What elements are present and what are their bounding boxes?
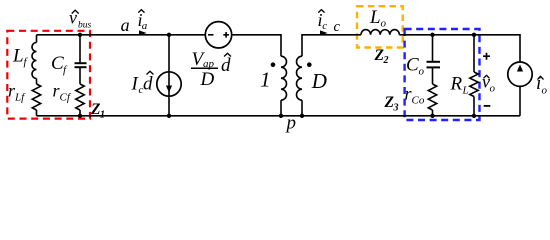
svg-text:a: a (121, 15, 130, 35)
node dot RL branch top (472, 33, 476, 37)
label Z1 (90, 101, 105, 120)
wire top rail from source to transformer primary (232, 35, 281, 56)
svg-text:c: c (334, 19, 341, 35)
svg-text:d: d (143, 74, 153, 95)
wire secondary top to rail (302, 35, 361, 56)
wire current source branch (168, 35, 170, 116)
node vbus label (69, 7, 92, 30)
label Vap/D d (voltage source value) (191, 49, 231, 90)
node dot Co branch top (430, 33, 434, 37)
svg-text:f: f (24, 56, 29, 68)
inductor Lf (vertical coil) (32, 43, 36, 79)
node dot Cf branch bottom (78, 114, 82, 118)
svg-text:c: c (322, 20, 327, 32)
capacitor Co (427, 62, 441, 68)
current ia arrow (139, 30, 147, 35)
label rCo (405, 84, 425, 107)
svg-text:o: o (381, 18, 387, 30)
wire top rail left (37, 34, 206, 36)
svg-text:L: L (12, 46, 24, 67)
svg-text:D: D (311, 69, 327, 93)
node dot Co branch bottom (430, 114, 434, 118)
svg-text:R: R (450, 74, 463, 95)
svg-text:Cf: Cf (60, 92, 72, 104)
resistor RL (470, 72, 478, 97)
wire RL bottom (473, 97, 475, 116)
label RL (450, 74, 469, 97)
wire secondary bottom (301, 100, 303, 116)
label rCf (53, 81, 72, 104)
impedance box Z3 (blue dashed) (405, 29, 480, 120)
label Lf (12, 46, 29, 69)
label Lo (369, 7, 387, 30)
svg-text:bus: bus (78, 21, 92, 31)
transformer secondary dot (307, 62, 312, 67)
node dot Ic branch bottom (167, 114, 171, 118)
svg-text:p: p (285, 113, 297, 134)
label Ic d (131, 71, 154, 96)
svg-text:Co: Co (412, 95, 425, 107)
svg-text:o: o (490, 83, 496, 95)
resistor rCf (76, 84, 84, 110)
label rLf (8, 81, 26, 104)
wire Lf branch top (36, 35, 38, 43)
node dot Cf branch top (78, 33, 82, 37)
output minus mark (484, 105, 491, 107)
svg-text:1: 1 (260, 67, 271, 91)
resistor rLf (32, 84, 40, 110)
wire top rail right (399, 35, 520, 62)
wire Cf to rCf (79, 68, 81, 84)
resistor rCo (428, 84, 436, 110)
current ia label (138, 10, 148, 33)
svg-text:L: L (462, 85, 469, 97)
svg-text:Lf: Lf (14, 92, 26, 104)
label io (536, 73, 548, 97)
svg-text:f: f (63, 64, 68, 76)
wire bottom rail (37, 115, 521, 117)
current source io (508, 62, 532, 86)
label Z2 (374, 47, 389, 66)
current ic label (318, 10, 328, 33)
wire Cf branch top (79, 35, 81, 63)
node dot RL branch bottom (472, 114, 476, 118)
wire RL branch top (473, 35, 475, 72)
current ic arrow (320, 30, 328, 35)
svg-text:L: L (369, 7, 381, 28)
node dot secondary bottom (300, 114, 304, 118)
wire Co to rCo (432, 68, 434, 84)
wire rCo bottom (432, 110, 434, 116)
voltage source Vap/D d (series, top rail) (205, 22, 231, 48)
node dot a-rail junction Ic branch top (167, 33, 171, 37)
svg-text:o: o (542, 85, 548, 97)
current source Ic d (157, 72, 181, 96)
wire io source bottom (519, 87, 521, 116)
capacitor Cf (75, 63, 87, 67)
wire Co branch top (432, 35, 434, 61)
svg-text:D: D (200, 69, 215, 90)
svg-text:C: C (406, 55, 419, 76)
transformer secondary winding (D) (297, 56, 303, 100)
svg-text:3: 3 (393, 103, 399, 114)
svg-text:o: o (419, 66, 425, 78)
wire primary bottom (280, 100, 282, 116)
output plus mark (483, 53, 490, 60)
wire Lf to rLf (36, 79, 38, 85)
inductor Lo (horizontal coil) (361, 30, 399, 35)
svg-text:2: 2 (383, 55, 389, 66)
svg-text:d: d (221, 55, 231, 76)
svg-text:a: a (142, 20, 148, 32)
label Z3 (384, 94, 399, 114)
node dot primary bottom (279, 114, 283, 118)
transformer primary winding (1) (281, 56, 287, 100)
output voltage vo label (482, 72, 496, 95)
transformer primary dot (271, 62, 276, 67)
label Co (406, 55, 425, 78)
wire rLf bottom (36, 110, 38, 116)
label Cf (51, 53, 68, 76)
impedance box Z2 (orange dashed) (357, 6, 403, 47)
impedance box Z1 (red dashed) (7, 31, 90, 119)
wire rCf bottom (79, 110, 81, 116)
